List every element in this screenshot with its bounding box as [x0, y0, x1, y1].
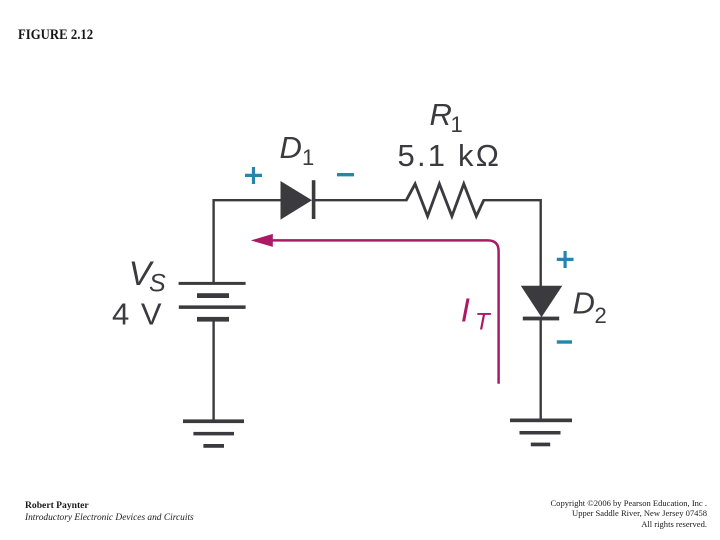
footer author name [25, 500, 89, 511]
ground (right) bar 2 [520, 431, 561, 435]
plus sign at D2 anode (teal) [557, 251, 574, 268]
svg-text:D: D [573, 286, 595, 321]
ground (right) bar 1 [510, 419, 572, 423]
label D1 [280, 130, 315, 170]
diode D2 (anode triangle, pointing down) [521, 286, 563, 317]
wire: D2 cathode down to right ground [540, 320, 542, 420]
wire: D1 cathode to resistor R1 [315, 199, 408, 201]
figure title FIGURE 2.12 [18, 27, 93, 44]
value label 5.1 kOhm [398, 138, 502, 173]
label IT (magenta) [461, 292, 492, 336]
footer copyright block [550, 498, 707, 529]
wire: resistor R1 to top-right corner and down to D2 anode [483, 200, 541, 287]
battery VS plate 1 (long, top) [179, 282, 246, 285]
current IT arrowhead (points left) [251, 234, 273, 247]
minus sign at D1 cathode (teal) [337, 173, 354, 176]
svg-text:T: T [475, 309, 492, 336]
svg-text:D: D [280, 130, 302, 165]
diode D1 cathode bar [312, 180, 316, 219]
wire: battery bottom to left ground [212, 321, 214, 420]
battery VS plate 2 (short, thick) [197, 293, 229, 298]
minus sign at D2 cathode (teal) [557, 340, 572, 343]
battery VS plate 4 (short, thick) [197, 317, 229, 322]
ground (left) bar 1 [183, 419, 244, 423]
resistor R1 zigzag body [407, 184, 484, 216]
svg-text:4 V: 4 V [112, 297, 163, 332]
svg-text:1: 1 [451, 112, 463, 137]
diode D2 cathode bar [523, 317, 559, 321]
svg-text:1: 1 [302, 145, 314, 170]
footer book title [25, 513, 194, 523]
value label 4 V [112, 297, 163, 332]
plus sign at D1 anode (teal) [245, 167, 262, 184]
svg-text:R: R [430, 97, 452, 132]
battery VS plate 3 (long) [179, 305, 246, 309]
label R1 [430, 97, 463, 137]
current IT loop wire (magenta) with rounded corner [268, 240, 499, 383]
wire: left vertical from top-left corner down to battery + top horizontal to D1 anode [214, 200, 282, 283]
svg-text:S: S [149, 270, 166, 298]
svg-text:5.1 kΩ: 5.1 kΩ [398, 138, 502, 173]
label D2 [573, 286, 607, 329]
diode D1 (anode triangle, pointing right) [281, 181, 313, 220]
ground (left) bar 2 [193, 432, 234, 436]
svg-text:I: I [461, 292, 470, 329]
label VS [129, 255, 166, 298]
svg-text:2: 2 [595, 303, 607, 328]
ground (left) bar 3 [203, 444, 224, 448]
ground (right) bar 3 [531, 443, 550, 447]
